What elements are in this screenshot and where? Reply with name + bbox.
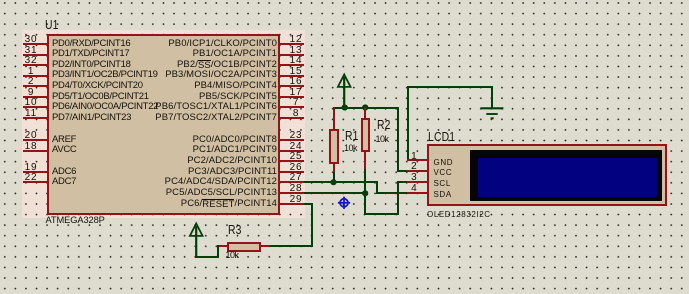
- resistor R1 top lead: [333, 108, 335, 129]
- pin number 8: [281, 109, 311, 119]
- power symbol VCC (R3 arrow): [189, 222, 204, 259]
- LCD pin name SDA: [434, 191, 452, 199]
- pin name PC4: [117, 177, 277, 187]
- pin number 7: [281, 98, 311, 108]
- pin name PD1: [52, 49, 129, 59]
- power symbol VCC (top arrow): [337, 73, 352, 109]
- pin name PB1: [117, 49, 277, 59]
- resistor R2 bottom lead: [364, 152, 366, 169]
- junction dot VCC/arrow: [341, 104, 349, 112]
- pin 28 right stub: [280, 192, 305, 194]
- pin number 14: [281, 56, 311, 66]
- pin name PB0: [117, 39, 277, 49]
- wire SDA lower run to LCD pin4: [376, 192, 408, 194]
- pin 20 (AREF) left stub: [23, 139, 47, 141]
- wire R1 lead to SDA junction: [333, 172, 335, 183]
- pin number 10: [16, 98, 46, 108]
- pin number 27: [281, 173, 311, 183]
- resistor R1 bottom lead: [333, 164, 335, 173]
- pin 19 (ADC6) left stub: [23, 171, 47, 173]
- resistor R3 right lead: [261, 245, 271, 247]
- pin 2 (PD4) left stub: [23, 85, 47, 87]
- pin name PD5: [52, 92, 149, 102]
- pin 25 right stub: [280, 160, 305, 162]
- LCD pin number 4: [399, 184, 429, 194]
- node marker (blue crosshair): [337, 196, 351, 210]
- LCD screen blue area: [478, 158, 657, 197]
- label U1: [45, 18, 59, 31]
- resistor R2 body: [361, 118, 371, 152]
- pin 32 (PD2) left stub: [23, 64, 47, 66]
- pin number 1: [16, 67, 46, 77]
- pin number 20: [16, 131, 46, 141]
- pin 7 right stub: [280, 106, 305, 108]
- label R2: [377, 118, 391, 131]
- pin 14 right stub: [280, 64, 305, 66]
- wire GND up from LCD pin1: [407, 86, 409, 161]
- pin number 28: [281, 184, 311, 194]
- pin 15 right stub: [280, 75, 305, 77]
- value 10k (R3): [226, 251, 239, 260]
- LCD pin name VCC: [434, 169, 453, 177]
- label OLED12832I2C: [427, 211, 491, 219]
- value 10k (R2): [376, 135, 389, 144]
- wire R3 left down: [217, 245, 219, 257]
- pin number 32: [16, 56, 46, 66]
- LCD pin 4 stub: [407, 192, 427, 194]
- junction dot R2/SCL: [362, 190, 370, 198]
- pin name PB2: [117, 60, 277, 70]
- pin 31 (PD1) left stub: [23, 54, 47, 56]
- junction dot R1/SDA: [330, 179, 338, 187]
- pin number 22: [16, 173, 46, 183]
- junction dot VCC/R2: [362, 104, 370, 112]
- wire R3 bottom run to power arrow: [195, 256, 220, 258]
- LCD pin number 1: [399, 152, 429, 162]
- pin name PB5: [117, 92, 277, 102]
- pin name PC5: [117, 188, 277, 198]
- pin name PC2: [117, 156, 277, 166]
- wire SCL: pin28 to junction: [304, 192, 367, 194]
- ground symbol: [479, 106, 506, 121]
- pin 23 right stub: [280, 139, 305, 141]
- pin 30 (PD0) left stub: [23, 43, 47, 45]
- pin 10 (PD6) left stub: [23, 106, 47, 108]
- pin name PC6: [117, 199, 277, 209]
- pin name ADC6: [52, 167, 76, 177]
- resistor R3 left lead: [217, 245, 227, 247]
- wire GND horizontal run: [407, 86, 492, 88]
- pin number 25: [281, 152, 311, 162]
- resistor R1 body: [329, 129, 339, 164]
- pin 22 (ADC7) left stub: [23, 181, 47, 183]
- LCD screen bezel: [470, 150, 662, 202]
- pin number 29: [281, 195, 311, 205]
- pin number 15: [281, 67, 311, 77]
- pin number 9: [16, 88, 46, 98]
- U1 highlight box: [22, 30, 305, 218]
- pin 13 right stub: [280, 54, 305, 56]
- pin name PB7: [117, 113, 277, 123]
- pin 16 right stub: [280, 85, 305, 87]
- wire SDA: pin27 to step: [304, 181, 378, 183]
- wire RESET: pin29 stub extension: [304, 203, 313, 205]
- pin name PD7: [52, 113, 131, 123]
- LCD pin number 3: [399, 173, 429, 183]
- pin number 24: [281, 142, 311, 152]
- pin 29 right stub: [280, 203, 305, 205]
- label ATMEGA328P: [46, 216, 105, 225]
- label R3: [228, 223, 242, 236]
- wire SCL down from junction: [364, 193, 366, 215]
- wire SDA step down: [376, 181, 378, 193]
- wire SCL up leg: [397, 181, 399, 215]
- LCD pin number 2: [399, 162, 429, 172]
- wire SCL into LCD pin3: [397, 181, 408, 183]
- wire SCL bottom run: [364, 213, 399, 215]
- LCD pin name SCL: [434, 180, 451, 188]
- pin number 18: [16, 142, 46, 152]
- resistor R2 top lead: [364, 108, 366, 119]
- wire RESET down leg: [311, 203, 313, 247]
- pin number 23: [281, 131, 311, 141]
- wire GND down to ground: [491, 86, 493, 108]
- pin number 30: [16, 35, 46, 45]
- pin name PD3: [52, 70, 158, 80]
- pin number 26: [281, 163, 311, 173]
- resistor R3 body: [227, 242, 261, 252]
- pin number 13: [281, 46, 311, 56]
- pin 8 right stub: [280, 117, 305, 119]
- pin name PC1: [117, 145, 277, 155]
- pin name AVCC: [52, 145, 77, 155]
- pin 26 right stub: [280, 171, 305, 173]
- pin 1 (PD3) left stub: [23, 75, 47, 77]
- pin name PD6: [52, 102, 158, 112]
- pin name AREF: [52, 135, 76, 145]
- LCD pin 2 stub: [407, 170, 427, 172]
- label R1: [345, 129, 359, 142]
- pin name ADC7: [52, 177, 76, 187]
- wire VCC down to LCD VCC: [397, 107, 399, 172]
- pin name PD2: [52, 60, 131, 70]
- pin 17 right stub: [280, 96, 305, 98]
- pin 9 (PD5) left stub: [23, 96, 47, 98]
- wire VCC into LCD pin2: [397, 170, 408, 172]
- pin name PB4: [117, 81, 277, 91]
- pin number 19: [16, 163, 46, 173]
- pin name PB6: [117, 102, 277, 112]
- wire VCC rail horizontal: [333, 107, 399, 109]
- pin 11 (PD7) left stub: [23, 117, 47, 119]
- pin number 17: [281, 88, 311, 98]
- wire RESET to R3: [270, 245, 313, 247]
- value 10k (R1): [344, 144, 357, 153]
- LCD1 body: [427, 144, 667, 206]
- pin number 31: [16, 46, 46, 56]
- pin name PB3: [117, 70, 277, 80]
- pin name PD0: [52, 39, 130, 49]
- pin 18 (AVCC) left stub: [23, 150, 47, 152]
- pin number 2: [16, 77, 46, 87]
- pin 12 right stub: [280, 43, 305, 45]
- pin name PC0: [117, 135, 277, 145]
- pin number 12: [281, 35, 311, 45]
- LCD pin 3 stub: [407, 181, 427, 183]
- pin name PC3: [117, 167, 277, 177]
- label LCD1: [428, 130, 455, 143]
- LCD pin name GND: [434, 159, 454, 167]
- wire R2 lead extension to junction: [364, 169, 366, 193]
- microcontroller U1 body (ATMEGA328P): [47, 34, 281, 216]
- pin number 16: [281, 77, 311, 87]
- LCD pin 1 stub: [407, 159, 427, 161]
- pin name PD4: [52, 81, 143, 91]
- pin 27 right stub: [280, 181, 305, 183]
- pin number 11: [16, 109, 46, 119]
- pin 24 right stub: [280, 150, 305, 152]
